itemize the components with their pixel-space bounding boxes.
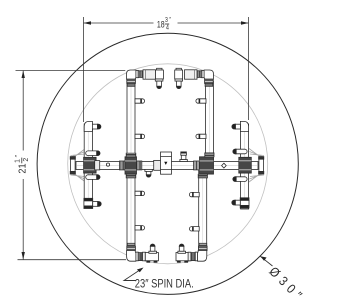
svg-text:3: 3: [165, 16, 168, 24]
svg-text:2: 2: [22, 158, 30, 162]
svg-text:Ø30″: Ø30″: [266, 264, 308, 300]
svg-text:23″ SPIN DIA.: 23″ SPIN DIA.: [135, 277, 194, 290]
svg-text:18: 18: [157, 19, 165, 29]
svg-text:″: ″: [169, 17, 171, 24]
svg-text:1: 1: [13, 159, 21, 163]
svg-text:″: ″: [14, 154, 21, 157]
svg-text:21: 21: [17, 163, 28, 173]
svg-text:4: 4: [166, 24, 169, 32]
